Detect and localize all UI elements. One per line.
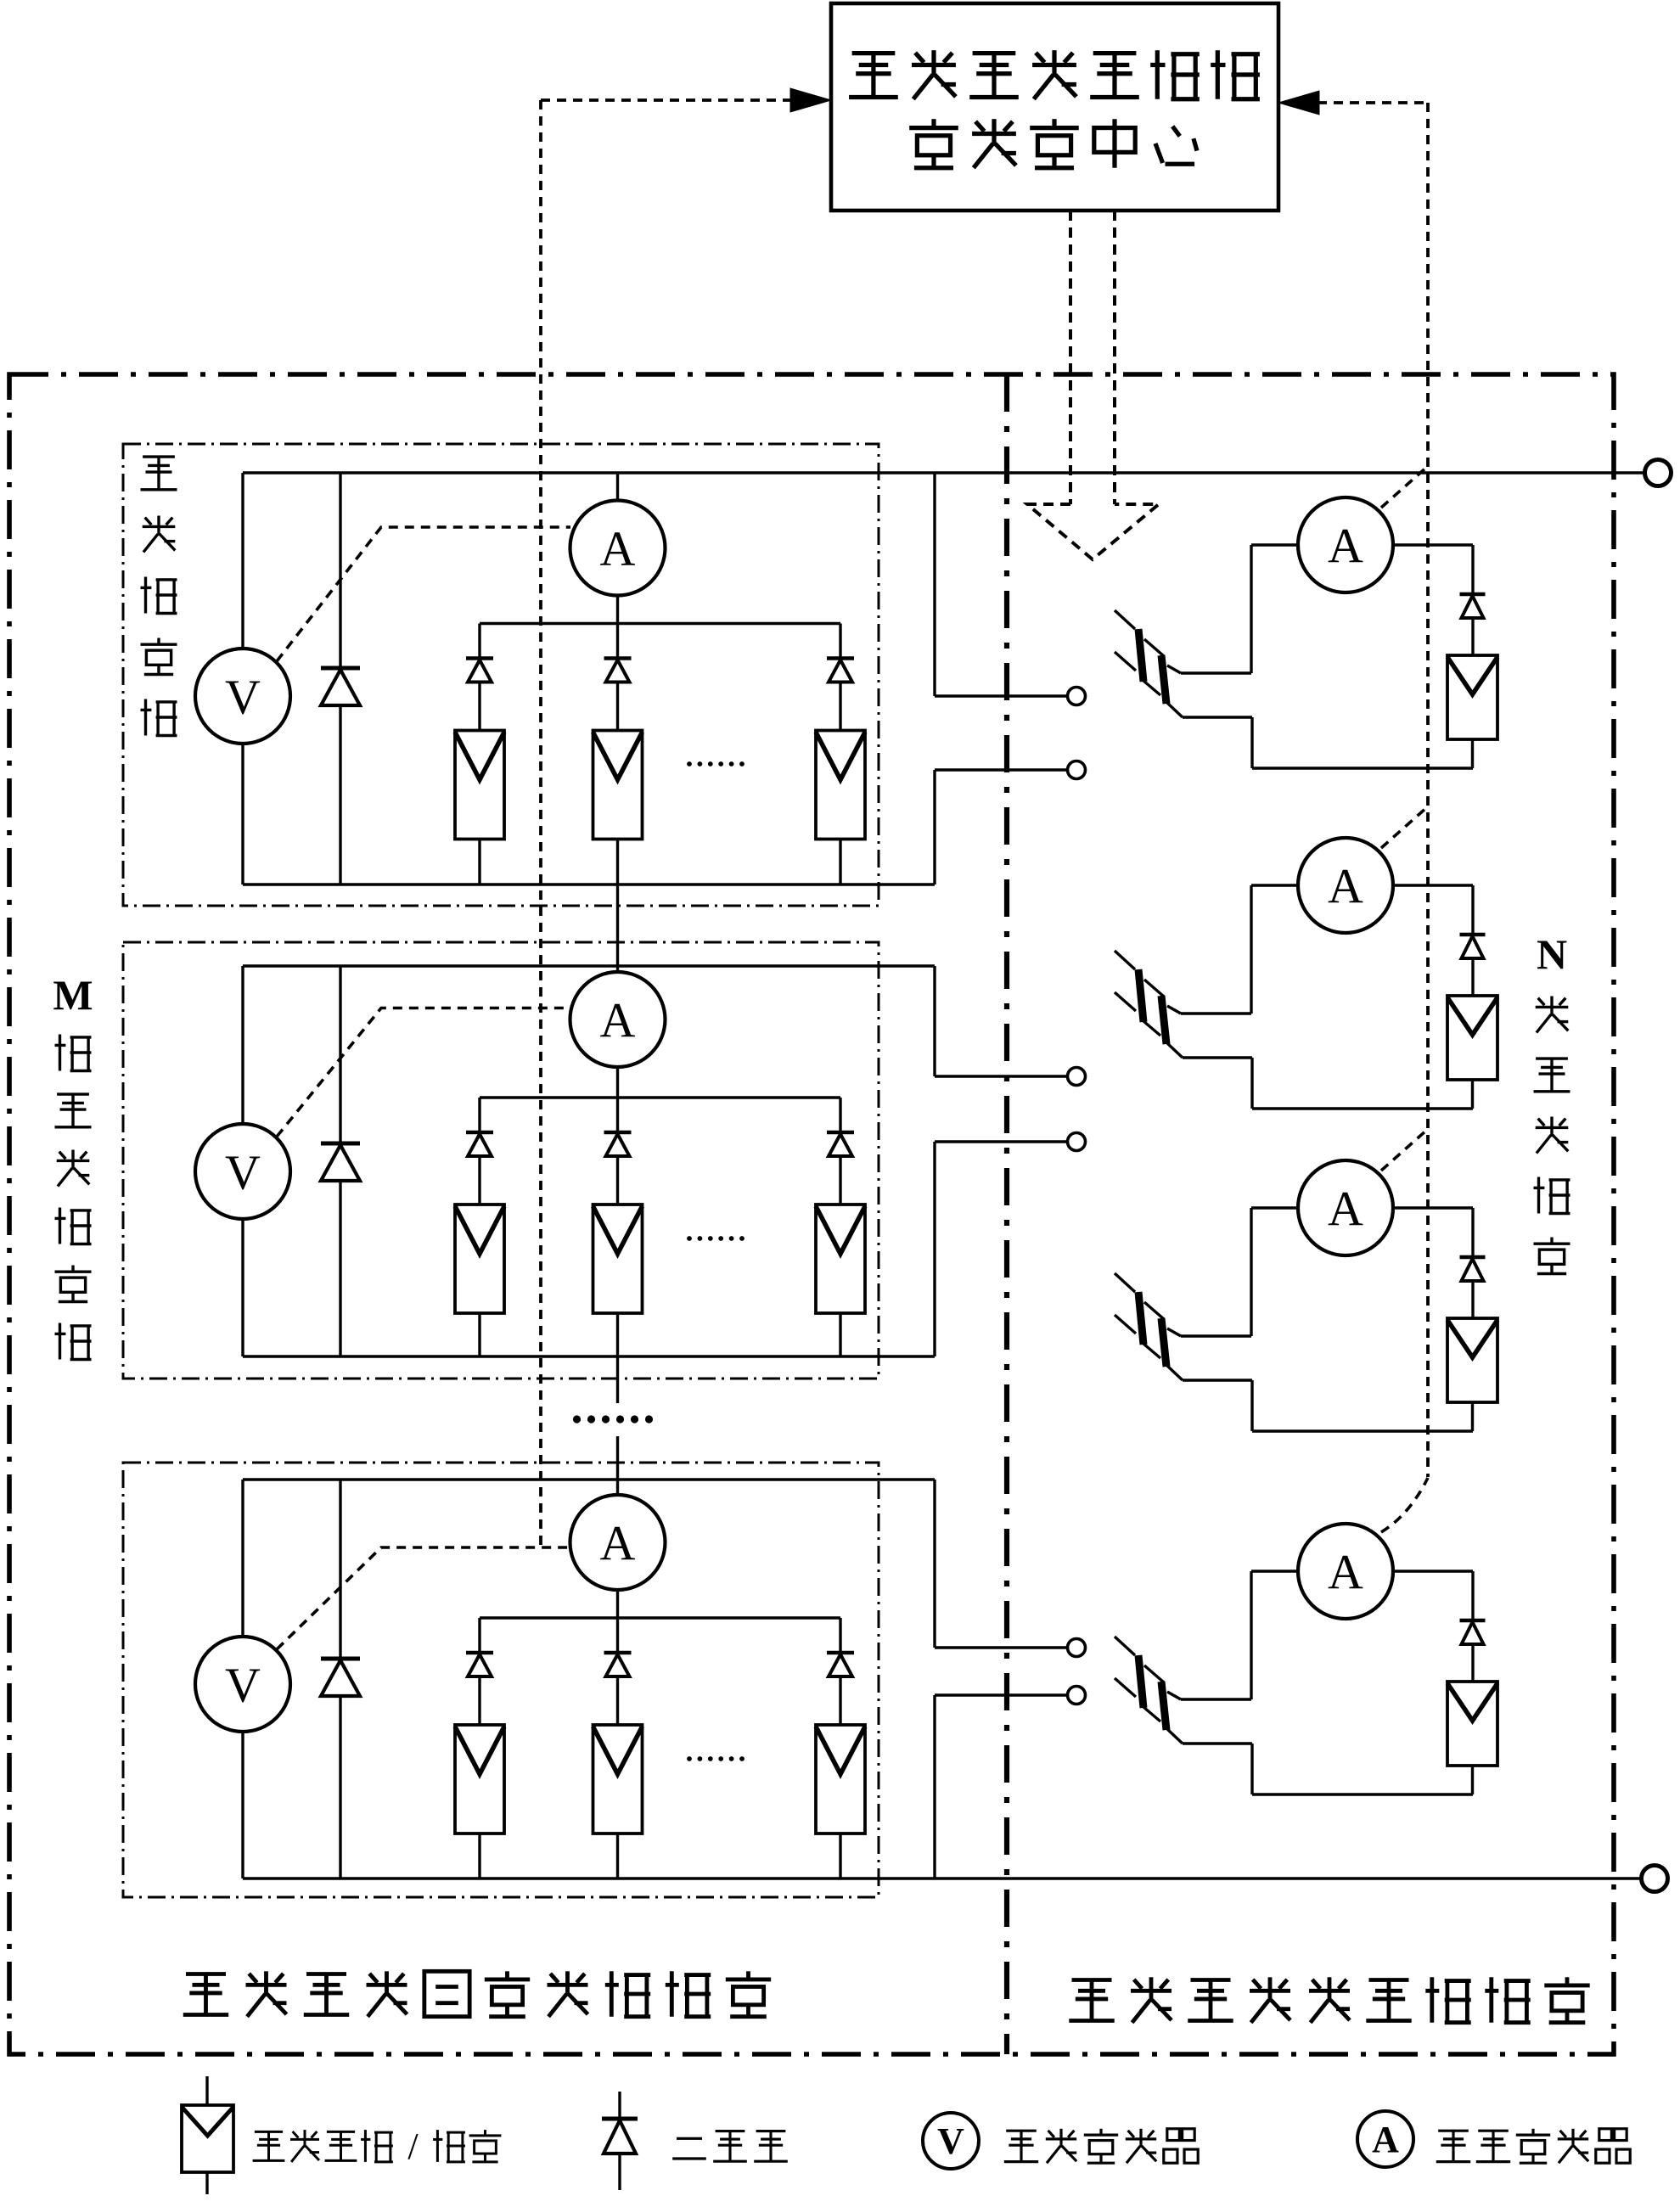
diode bypass RM2 <box>1471 885 1474 935</box>
svg-text:V: V <box>225 1144 261 1199</box>
wire PV lead bottom RM3 <box>1471 1402 1474 1431</box>
diode G3S3 bypass <box>827 1651 854 1655</box>
wire A lead bottom G1 <box>616 596 619 624</box>
wire <box>616 682 619 731</box>
svg-text:V: V <box>225 1657 261 1712</box>
PV module G3S2 <box>593 1725 643 1834</box>
wire G3S2 lead <box>616 1618 619 1653</box>
wire <box>839 682 841 731</box>
wire group bottom bus G2 <box>243 1355 935 1357</box>
wire <box>478 1676 480 1725</box>
wire main positive bus <box>243 471 1643 474</box>
svg-text:V: V <box>937 2120 964 2162</box>
terminal upper G1 <box>1068 688 1086 705</box>
ammeter A RM2 <box>1251 884 1298 886</box>
wire loop bottom RM3 <box>1252 1429 1473 1432</box>
diode G2S2 bypass <box>604 1131 632 1135</box>
wire loop left RM2 <box>1250 885 1252 1014</box>
ellipsis dots strings G1 <box>687 761 692 767</box>
diode bypass G1 <box>339 473 341 668</box>
label 光伏阵列可重构部分 <box>1072 1978 1112 1982</box>
svg-text:A: A <box>1328 1181 1363 1236</box>
terminal lower G2 <box>1068 1133 1086 1151</box>
wire <box>839 1313 841 1356</box>
wire dashed sensor link RM1 <box>1381 467 1427 508</box>
wire dashed measurement trunk left <box>539 100 542 1547</box>
wire dotted control output lines <box>1069 211 1072 504</box>
wire terminal stub lower G2 <box>933 1142 936 1356</box>
wire <box>839 1156 841 1205</box>
legend voltmeter symbol <box>923 2113 979 2169</box>
wire V lead top G2 <box>241 966 244 1124</box>
wire string parallel bus G1 <box>480 622 840 625</box>
label 光伏阵列固定结构部分 <box>186 1972 226 1976</box>
wire G2S1 lead <box>478 1098 480 1132</box>
PV module G2S1 <box>455 1205 504 1313</box>
svg-text:A: A <box>600 1515 636 1570</box>
svg-text:A: A <box>1328 1544 1363 1599</box>
PV module RM1 <box>1447 655 1497 739</box>
voltmeter V G3 电压互感器 <box>195 1637 290 1732</box>
PV module RM4 <box>1447 1682 1497 1766</box>
label 二极管 <box>677 2137 702 2140</box>
wire <box>478 1834 480 1878</box>
wire series link dots-G3 <box>616 1436 619 1495</box>
switch disconnect RM4 <box>1115 1637 1135 1655</box>
diode G3S2 bypass <box>604 1651 632 1655</box>
ellipsis dots series continuation <box>573 1415 581 1423</box>
wire string parallel bus G2 <box>480 1096 840 1098</box>
legend PV cell symbol <box>205 2076 208 2105</box>
terminal main positive output <box>1645 460 1672 486</box>
PV module G1S2 <box>593 731 643 840</box>
ellipsis dots strings G3 <box>687 1756 692 1761</box>
diode bypass RM3 <box>1471 1208 1474 1257</box>
terminal main negative output <box>1642 1866 1668 1892</box>
wire PV lead bottom RM2 <box>1471 1080 1474 1109</box>
terminal lower G1 <box>1068 761 1086 779</box>
svg-text:/: / <box>407 2126 419 2167</box>
wire G1S3 lead <box>839 624 841 659</box>
PV module G2S2 <box>593 1205 643 1313</box>
wire loop bottom RM4 <box>1252 1793 1473 1795</box>
wire dashed sensor link G1 <box>277 527 570 661</box>
wire A lead top G1 <box>616 473 619 501</box>
wire <box>616 1156 619 1205</box>
arrowhead into control box left <box>790 88 831 112</box>
ellipsis dots strings G2 <box>687 1236 692 1241</box>
label 光伏电池/组件 <box>255 2131 283 2133</box>
wire V lead top G3 <box>241 1480 244 1637</box>
wire group bottom bus G1 <box>243 883 935 885</box>
wire group top bus G2 <box>243 964 935 967</box>
diode bypass RM4 <box>1471 1571 1474 1620</box>
wire <box>478 1313 480 1356</box>
wire series link G1-G2 <box>616 884 619 972</box>
switch disconnect RM2 <box>1115 951 1135 969</box>
wire main negative bus <box>243 1877 1640 1879</box>
wire V lead top G1 <box>241 473 244 649</box>
wire A lead bottom G2 <box>616 1067 619 1098</box>
diode G1S3 bypass <box>827 656 854 660</box>
PV module G3S1 <box>455 1725 504 1834</box>
wire G1S2 lead <box>616 624 619 659</box>
PV module G3S3 <box>816 1725 865 1834</box>
PV module G2S3 <box>816 1205 865 1313</box>
PV module RM3 <box>1447 1318 1497 1402</box>
wire dashed measurement trunk right <box>1426 103 1430 1477</box>
wire dashed sensor link G3 <box>277 1547 570 1649</box>
wire loop left RM1 <box>1250 545 1252 673</box>
wire <box>839 1676 841 1725</box>
voltmeter V G1 电压互感器 <box>195 649 290 744</box>
svg-text:M: M <box>53 971 93 1019</box>
terminal lower G3 <box>1068 1687 1086 1704</box>
ammeter A RM3 <box>1251 1206 1298 1209</box>
wire string parallel bus G3 <box>480 1616 840 1619</box>
wire <box>839 840 841 885</box>
legend diode symbol <box>618 2092 621 2120</box>
diode G2S1 bypass <box>466 1131 493 1135</box>
arrowhead into control box right <box>1278 91 1319 115</box>
wire terminal stub upper G2 <box>933 966 936 1076</box>
label 电流互感器 <box>1438 2130 1469 2132</box>
wire <box>616 840 619 885</box>
diode bypass RM1 <box>1471 545 1474 594</box>
module group box G3 dash-dot <box>123 1463 879 1897</box>
switch disconnect RM1 <box>1115 610 1135 629</box>
wire A lead bottom G3 <box>616 1590 619 1618</box>
wire <box>839 1834 841 1878</box>
wire V lead bottom G2 <box>241 1219 244 1356</box>
wire <box>478 840 480 885</box>
wire <box>478 1156 480 1205</box>
control center box 光伏阵列重构优化控制中心 <box>831 3 1278 211</box>
terminal upper G2 <box>1068 1068 1086 1086</box>
PV module RM2 <box>1447 996 1497 1080</box>
wire loop left RM3 <box>1250 1208 1252 1336</box>
wire loop bottom RM2 <box>1252 1107 1473 1109</box>
PV module G1S1 <box>455 731 504 840</box>
arrow dashed control-action arrowhead <box>1027 504 1159 559</box>
terminal upper G3 <box>1068 1639 1086 1657</box>
svg-text:A: A <box>600 521 636 576</box>
wire <box>478 682 480 731</box>
wire terminal stub upper G1 <box>933 473 936 696</box>
diode bypass G3 <box>339 1480 341 1659</box>
wire <box>616 1834 619 1878</box>
svg-text:A: A <box>1328 518 1363 573</box>
wire PV lead bottom RM4 <box>1471 1766 1474 1794</box>
wire G2S3 lead <box>839 1098 841 1132</box>
wire group top bus G3 <box>243 1478 935 1480</box>
wire dashed sensor link RM4 <box>1381 1478 1428 1532</box>
legend ammeter symbol <box>1357 2111 1413 2167</box>
wire G3S3 lead <box>839 1618 841 1653</box>
svg-text:A: A <box>1328 858 1363 913</box>
wire dashed sensor link RM3 <box>1381 1130 1427 1171</box>
label 电压互感器 <box>1006 2130 1037 2132</box>
wire V lead bottom G3 <box>241 1732 244 1878</box>
wire dashed sensor link G2 <box>277 1008 570 1137</box>
ammeter A G3 电流互感器 <box>570 1495 666 1590</box>
diode G2S3 bypass <box>827 1131 854 1135</box>
wire <box>616 1313 619 1356</box>
module group box G1 dash-dot <box>123 444 879 906</box>
svg-text:N: N <box>1537 930 1567 978</box>
diode G3S1 bypass <box>466 1651 493 1655</box>
ammeter A G1 电流互感器 <box>570 501 666 596</box>
voltmeter V G2 电压互感器 <box>195 1124 290 1219</box>
border vertical separator fixed/reconfigurable <box>1004 374 1009 2054</box>
diode bypass G2 <box>339 966 341 1143</box>
wire loop bottom RM1 <box>1252 767 1473 769</box>
wire G3S1 lead <box>478 1618 480 1653</box>
wire terminal stub upper G3 <box>933 1480 936 1648</box>
wire G1S1 lead <box>478 624 480 659</box>
wire G2S2 lead <box>616 1098 619 1132</box>
switch disconnect RM3 <box>1115 1273 1135 1292</box>
ammeter A G2 电流互感器 <box>570 972 666 1067</box>
PV module G1S3 <box>816 731 865 840</box>
wire loop left RM4 <box>1250 1571 1252 1699</box>
svg-text:A: A <box>600 992 636 1047</box>
wire PV lead bottom RM1 <box>1471 739 1474 768</box>
diode G1S2 bypass <box>604 656 632 660</box>
wire dashed sensor link RM2 <box>1381 807 1427 848</box>
ammeter A RM4 <box>1251 1570 1298 1572</box>
border outer dash-dot frame <box>9 374 1614 2054</box>
ammeter A RM1 <box>1251 543 1298 546</box>
diode G1S1 bypass <box>466 656 493 660</box>
svg-text:V: V <box>225 669 261 724</box>
label group1 光伏组件组 vertical <box>143 455 175 458</box>
wire <box>616 1676 619 1725</box>
wire V lead bottom G1 <box>241 744 244 884</box>
svg-text:A: A <box>1372 2119 1399 2160</box>
module group box G2 dash-dot <box>123 942 879 1379</box>
wire terminal stub lower G3 <box>933 1695 936 1878</box>
wire terminal stub lower G1 <box>933 770 936 884</box>
wire series link G2-dots <box>616 1356 619 1403</box>
